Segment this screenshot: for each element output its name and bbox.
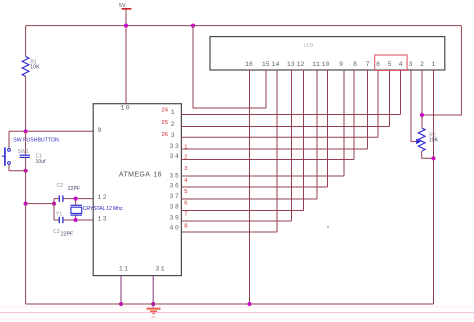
wire LCD16 to ground rail — [249, 70, 251, 304]
svg-text:34: 34 — [170, 153, 181, 160]
artifact speck — [327, 226, 328, 227]
wire LCD2 down to pot top — [421, 70, 423, 128]
svg-text:CRYSTAL 12 Mhz: CRYSTAL 12 Mhz — [83, 206, 123, 212]
svg-text:3: 3 — [171, 132, 175, 139]
svg-text:15: 15 — [262, 61, 270, 68]
node junction LCD16/rail — [247, 302, 251, 306]
wire pin37 to LCD11 — [181, 198, 317, 200]
wire ground rail bottom — [26, 303, 434, 305]
svg-text:13: 13 — [287, 61, 295, 68]
wire pin33 to LCD7 — [181, 148, 367, 150]
wire LCD8 down — [353, 70, 355, 160]
wire pin35 to LCD9 — [181, 175, 344, 177]
svg-text:37: 37 — [170, 193, 181, 200]
capacitor C1 — [20, 155, 30, 157]
artifact pink line bottom — [0, 307, 474, 319]
wire pushbutton top stub — [8, 131, 10, 148]
wire rail below C1 — [25, 158, 27, 304]
node junction pin31/rail — [151, 302, 155, 306]
svg-text:10: 10 — [322, 61, 330, 68]
node junction crystal top — [74, 197, 78, 201]
wire LCD13 down — [291, 70, 293, 221]
svg-text:22PF: 22PF — [68, 186, 80, 192]
node junction ground tap — [24, 202, 28, 206]
node junction LCD2/5V loop — [420, 113, 424, 117]
svg-text:4: 4 — [399, 61, 403, 68]
node junction rail/LED loop — [191, 24, 195, 28]
resistor R1 — [22, 57, 29, 77]
svg-text:40: 40 — [170, 224, 181, 231]
svg-text:26: 26 — [162, 132, 168, 138]
wire LCD9 down — [343, 70, 345, 176]
wire LCD6 down — [377, 70, 379, 137]
svg-text:8: 8 — [184, 223, 187, 229]
svg-text:SW1: SW1 — [18, 149, 29, 155]
wire XTAL1 pin12 — [54, 198, 93, 200]
wire chip pin31 to ground rail — [152, 276, 154, 304]
wire 5V stub — [125, 9, 127, 26]
node junction reset/rail — [24, 129, 28, 133]
wire VCC rail to chip pin 10 — [125, 26, 127, 104]
svg-text:10K: 10K — [429, 138, 439, 144]
wire LCD3 down to pot wiper — [410, 70, 412, 142]
svg-text:9: 9 — [339, 61, 343, 68]
wire pin38 to LCD12 — [181, 210, 303, 212]
wire rail to C1 top — [25, 131, 27, 154]
svg-text:7: 7 — [184, 212, 187, 218]
svg-text:2: 2 — [420, 61, 424, 68]
wire LCD10 down — [327, 70, 329, 187]
svg-text:5: 5 — [388, 61, 392, 68]
node junction cap/pushbutton bottom — [24, 169, 28, 173]
svg-text:2: 2 — [171, 121, 175, 128]
pushbutton SW1 — [2, 147, 11, 166]
red highlight box pins 6 5 4 — [375, 55, 407, 70]
node junction crystal bottom — [74, 218, 78, 222]
crystal Y1 — [71, 199, 83, 220]
wire LCD11 down — [316, 70, 318, 199]
svg-text:36: 36 — [170, 183, 181, 190]
wire LCD14 down — [276, 70, 278, 232]
svg-text:10: 10 — [121, 104, 131, 111]
svg-text:10uf: 10uf — [36, 159, 47, 165]
svg-text:3: 3 — [184, 166, 187, 172]
wire pin39 to LCD13 — [181, 220, 291, 222]
wire LCD1 down to ground rail — [433, 70, 435, 304]
svg-text:13: 13 — [98, 215, 108, 222]
svg-text:14: 14 — [272, 61, 280, 68]
svg-text:16: 16 — [245, 61, 253, 68]
svg-text:31: 31 — [156, 266, 166, 273]
wire ground tap to caps — [26, 203, 54, 205]
svg-text:LCD: LCD — [304, 43, 314, 48]
svg-text:12: 12 — [297, 61, 305, 68]
capacitor C3 — [59, 217, 63, 223]
op chip ATMEGA16 body U1 — [93, 104, 181, 276]
svg-text:8: 8 — [353, 61, 357, 68]
power 5V symbol — [119, 3, 131, 9]
wire pin1 to LCD4 — [181, 114, 400, 116]
wire pin36 to LCD10 — [181, 186, 327, 188]
svg-text:1: 1 — [171, 109, 175, 116]
svg-text:35: 35 — [170, 172, 181, 179]
wire LCD7 down — [367, 70, 369, 149]
svg-text:39: 39 — [170, 214, 181, 221]
node junction 5V/rail — [124, 24, 128, 28]
svg-text:Y1: Y1 — [56, 212, 62, 218]
wire pin2 to LCD5 — [181, 126, 389, 128]
node junction pot/LCD1 — [431, 156, 435, 160]
svg-text:25: 25 — [162, 120, 168, 126]
svg-text:16: 16 — [153, 171, 162, 178]
svg-text:5: 5 — [184, 189, 187, 195]
svg-text:11: 11 — [119, 266, 129, 273]
svg-text:12: 12 — [98, 194, 108, 201]
wire left rail upper — [25, 26, 27, 57]
svg-text:ATMEGA: ATMEGA — [119, 171, 150, 178]
display LCD body — [210, 37, 445, 70]
ground symbol — [147, 304, 161, 317]
capacitor C2 — [59, 195, 63, 201]
svg-text:2: 2 — [184, 155, 187, 161]
node junction pin11/rail — [119, 302, 123, 306]
svg-text:3: 3 — [409, 61, 413, 68]
svg-text:10K: 10K — [30, 65, 40, 71]
wire pot bottom to LCD1 — [422, 151, 434, 158]
wire LCD5 down — [389, 70, 391, 127]
svg-text:11: 11 — [312, 61, 320, 68]
svg-text:22PF: 22PF — [61, 231, 73, 237]
wire LCD12 down — [303, 70, 305, 211]
wire XTAL2 pin13 — [54, 219, 93, 221]
potentiometer R2 — [411, 128, 425, 151]
svg-text:9: 9 — [98, 127, 102, 134]
svg-text:7: 7 — [366, 61, 370, 68]
svg-text:1: 1 — [184, 144, 187, 150]
svg-text:5V: 5V — [119, 3, 126, 9]
wire rail to LCD pin15 loop — [193, 26, 266, 108]
wire LCD4 down — [400, 70, 402, 115]
svg-text:SW PUSHBUTTON: SW PUSHBUTTON — [13, 138, 59, 144]
wire left rail below R1 — [25, 76, 27, 131]
wire pin40 to LCD14 — [181, 231, 277, 233]
wire pin3 to LCD6 — [181, 136, 378, 138]
svg-text:C2: C2 — [57, 183, 64, 189]
wire caps left vertical — [53, 199, 55, 220]
wire LCD15 up to 5V loop — [265, 70, 267, 108]
svg-text:C3: C3 — [53, 229, 60, 235]
wire right loop to LCD pin2 — [422, 26, 461, 115]
svg-text:33: 33 — [170, 143, 181, 150]
wire pushbutton bottom stub — [9, 165, 26, 171]
svg-text:6: 6 — [376, 61, 380, 68]
svg-text:1: 1 — [432, 61, 436, 68]
wire 5V rail top — [26, 25, 462, 27]
svg-text:6: 6 — [184, 200, 187, 206]
wire reset node to pin 9 — [9, 130, 93, 132]
svg-text:38: 38 — [170, 204, 181, 211]
wire chip pin11 to ground rail — [120, 276, 122, 304]
svg-text:24: 24 — [162, 108, 169, 114]
node junction caps left — [52, 202, 56, 206]
wire pin34 to LCD8 — [181, 159, 354, 161]
